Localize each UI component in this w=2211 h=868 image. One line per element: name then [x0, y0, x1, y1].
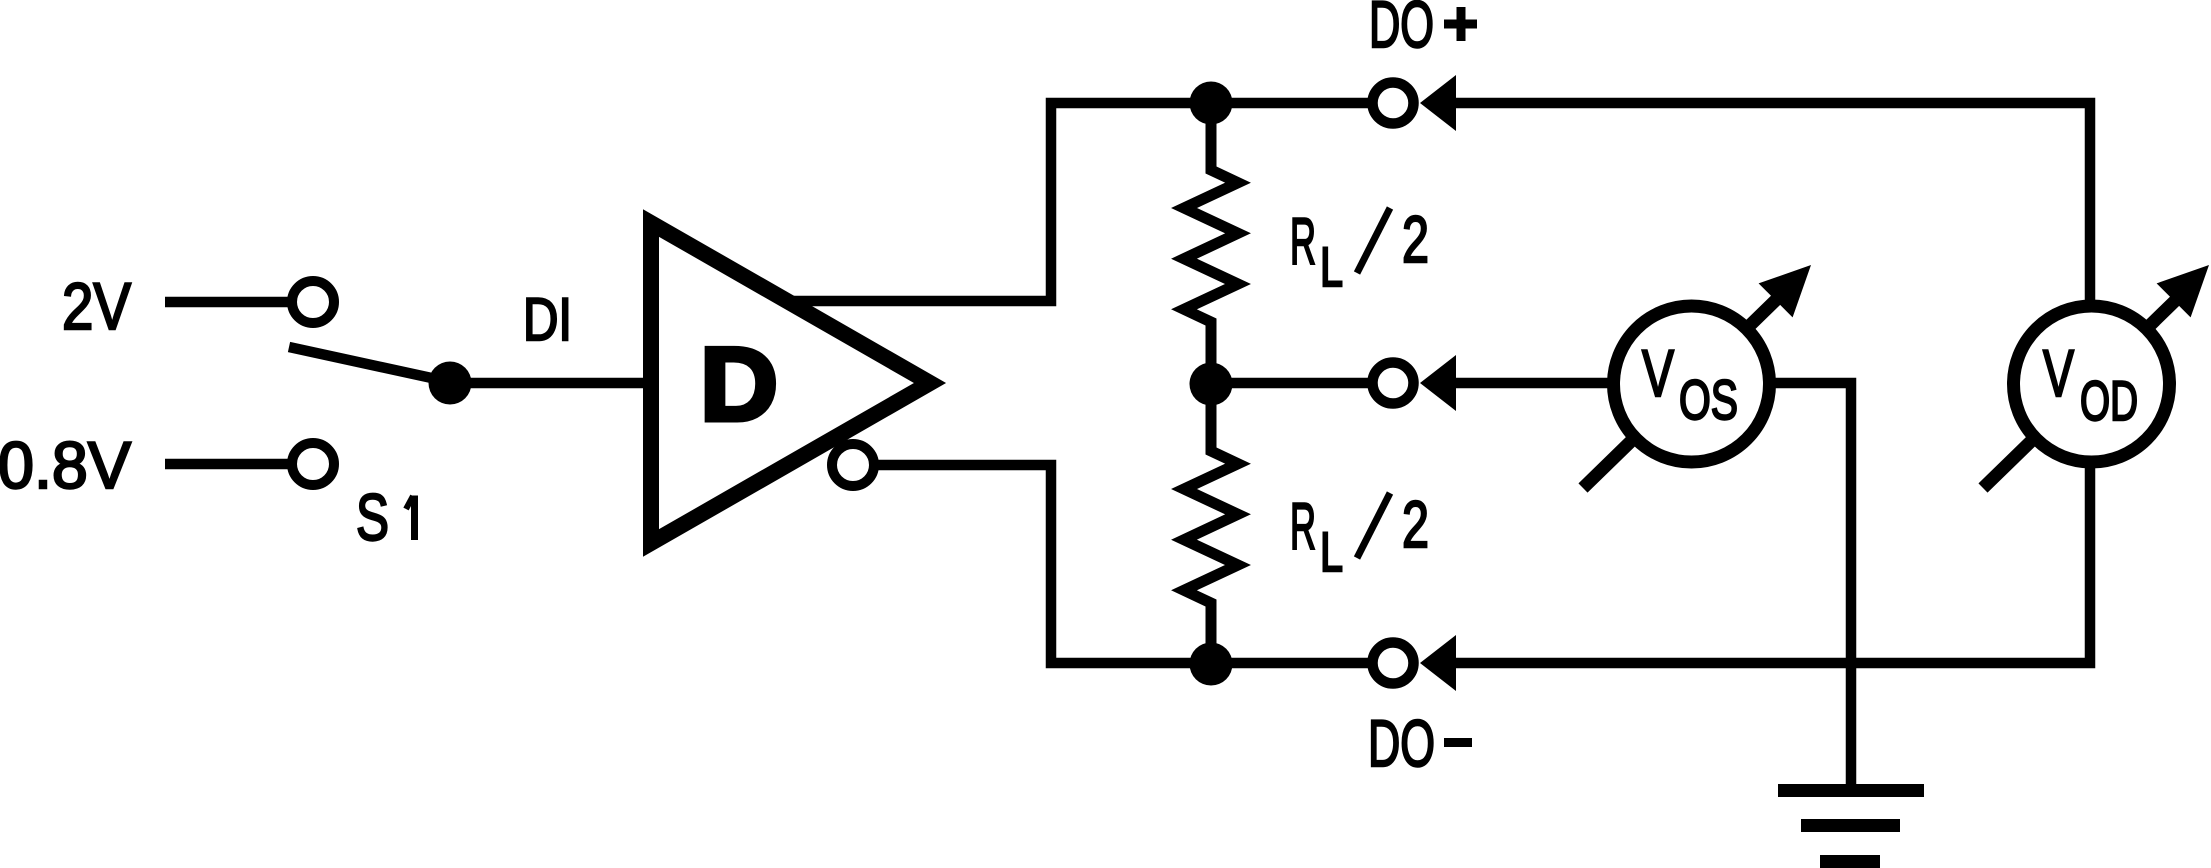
svg-text:2: 2: [1402, 202, 1429, 276]
resistor chain RL/2 + RL/2: [1184, 104, 1238, 664]
svg-text:R: R: [1290, 204, 1316, 278]
svg-text:D: D: [700, 327, 778, 443]
node junction top: [1190, 82, 1233, 125]
switch S1 contact lower: [292, 443, 334, 485]
switch S1 pole junction: [429, 362, 472, 405]
svg-text:OD: OD: [2080, 369, 2138, 432]
label RL/2 lower: slash: [1357, 493, 1390, 558]
wire middle node to VOS terminal: [1211, 378, 1372, 389]
wire driver top output to top rail: [790, 103, 1372, 301]
label DO- minus sign: [1444, 738, 1472, 747]
node junction bottom: [1190, 643, 1233, 686]
label S1: digit 1: [411, 496, 418, 541]
arrowhead into DO-: [1420, 635, 1456, 691]
svg-text:R: R: [1290, 489, 1316, 563]
svg-text:L: L: [1320, 235, 1343, 298]
svg-text:V: V: [1642, 336, 1674, 410]
arrowhead into DO+: [1420, 75, 1456, 131]
node junction middle: [1190, 363, 1233, 406]
terminal DO+ circle: [1373, 83, 1414, 124]
svg-text:2: 2: [1402, 487, 1429, 561]
meter VOD arrowhead: [2157, 265, 2209, 317]
label DO+ plus sign: [1444, 20, 1477, 29]
svg-text:DI: DI: [523, 286, 572, 353]
wire node DI: [450, 378, 655, 389]
svg-text:V: V: [2043, 336, 2074, 410]
wire 2V lead: [165, 297, 293, 308]
ground bar 2: [1801, 819, 1900, 832]
meter VOS circle: [1614, 306, 1770, 462]
driver inverting output bubble: [832, 444, 874, 486]
svg-text:OS: OS: [1679, 368, 1738, 431]
svg-text:DO: DO: [1368, 706, 1435, 780]
switch S1 arm: [289, 347, 450, 382]
meter VOD circle: [2014, 306, 2170, 462]
svg-text:L: L: [1320, 520, 1343, 583]
wire bottom rail to VOD: [1451, 466, 2090, 663]
driver U1 triangle: [651, 223, 930, 543]
terminal DO- circle: [1373, 643, 1414, 684]
terminal middle circle: [1373, 363, 1414, 404]
arrowhead into middle terminal: [1420, 355, 1456, 411]
meter VOS arrow shaft: [1583, 296, 1780, 488]
wire top rail to VOD: [1451, 103, 2090, 302]
wire driver inverted output to bottom rail: [872, 465, 1372, 663]
switch S1 contact upper: [292, 281, 334, 323]
meter VOS arrowhead: [1759, 265, 1811, 317]
label RL/2 upper: slash: [1357, 208, 1390, 273]
svg-text:DO: DO: [1369, 0, 1434, 61]
wire VOS to ground drop: [1773, 383, 1851, 790]
svg-text:2V: 2V: [62, 269, 131, 343]
wire 0.8V lead: [165, 459, 293, 470]
meter VOD arrow shaft: [1983, 296, 2180, 488]
ground bar 1: [1778, 784, 1924, 797]
svg-text:0.8V: 0.8V: [0, 428, 131, 502]
ground bar 3: [1820, 855, 1880, 868]
svg-text:S: S: [356, 480, 389, 554]
wire middle terminal to VOS: [1451, 378, 1610, 389]
